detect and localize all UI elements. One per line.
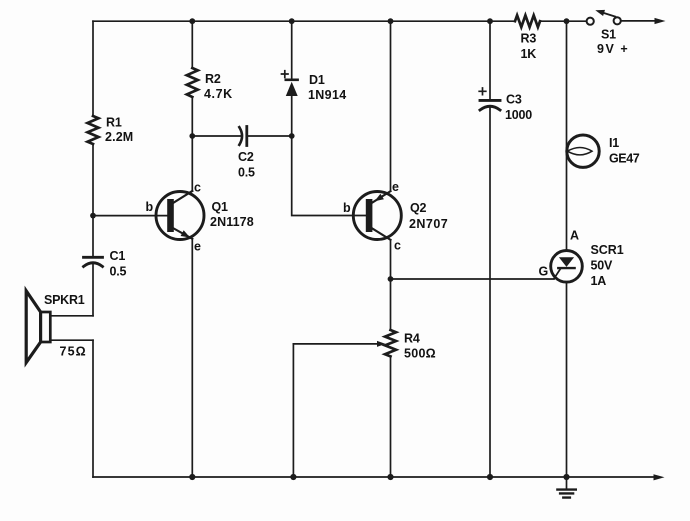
- switch S1: [587, 18, 594, 25]
- wire C3 top: [489, 21, 491, 100]
- potentiometer R4: [385, 330, 396, 356]
- svg-text:0.5: 0.5: [238, 166, 255, 180]
- svg-text:R2: R2: [205, 72, 221, 86]
- svg-text:I1: I1: [609, 136, 619, 150]
- wire Q2 collector rail: [390, 240, 392, 279]
- node C2 right junction: [289, 133, 295, 139]
- svg-text:c: c: [394, 239, 401, 253]
- wire R4 bottom: [390, 356, 392, 477]
- node C2 left junction: [189, 133, 195, 139]
- wire top rail right section: [540, 20, 587, 22]
- lamp I1: [567, 135, 599, 167]
- wire left rail below C1: [92, 265, 94, 316]
- node bottom junction SCR: [563, 474, 569, 480]
- wire speaker top terminal: [50, 315, 93, 317]
- capacitor C3: [480, 99, 500, 102]
- node top junction Q2 emitter rail: [388, 18, 394, 24]
- svg-text:A: A: [570, 229, 579, 243]
- wire Q1 emitter rail: [191, 239, 193, 477]
- node top junction D1: [289, 18, 295, 24]
- label D1 plus sign: [282, 71, 289, 78]
- svg-text:C2: C2: [238, 150, 254, 164]
- wire left rail upper: [92, 21, 94, 116]
- svg-text:75Ω: 75Ω: [60, 345, 86, 359]
- ground: [566, 477, 568, 488]
- thyristor SCR1: [551, 250, 583, 282]
- wire R4 wiper arm: [293, 343, 378, 345]
- wire left rail lower: [92, 340, 94, 477]
- svg-text:2.2M: 2.2M: [105, 130, 133, 144]
- svg-text:R4: R4: [404, 332, 420, 346]
- svg-text:D1: D1: [309, 73, 325, 87]
- node top junction R2: [189, 18, 195, 24]
- svg-text:2N1178: 2N1178: [210, 215, 254, 229]
- svg-text:Q2: Q2: [410, 201, 427, 215]
- wire D1 anode top: [291, 21, 293, 80]
- wire junction to R4: [390, 279, 392, 330]
- svg-text:C1: C1: [110, 249, 126, 263]
- wire SCR gate: [391, 278, 555, 280]
- wire left rail middle: [92, 144, 94, 257]
- svg-text:e: e: [194, 240, 201, 254]
- svg-text:50V: 50V: [591, 259, 614, 273]
- node bottom junction Q1 emitter: [189, 474, 195, 480]
- node bottom junction R4 wiper: [290, 474, 296, 480]
- svg-text:Q1: Q1: [212, 200, 229, 214]
- svg-text:GE47: GE47: [609, 152, 640, 166]
- svg-text:e: e: [392, 180, 399, 194]
- svg-text:b: b: [343, 201, 351, 215]
- svg-text:G: G: [539, 265, 549, 279]
- svg-text:0.5: 0.5: [110, 265, 127, 279]
- wire R2 bottom to junction: [191, 97, 193, 136]
- node top junction at lamp rail: [564, 18, 570, 24]
- svg-text:c: c: [194, 181, 201, 195]
- svg-text:2N707: 2N707: [409, 217, 448, 231]
- svg-text:4.7K: 4.7K: [204, 87, 232, 101]
- resistor R3: [515, 15, 540, 27]
- svg-text:1A: 1A: [591, 274, 607, 288]
- capacitor C2: [239, 127, 242, 145]
- speaker SPKR1: [41, 312, 51, 342]
- wire to Q2 base: [292, 136, 366, 216]
- wire Q1 base: [93, 215, 168, 217]
- label C3 plus sign: [479, 88, 486, 95]
- svg-text:R1: R1: [106, 116, 122, 130]
- capacitor C1: [84, 256, 103, 259]
- svg-text:1000: 1000: [505, 108, 532, 122]
- wire R2 rail top: [191, 21, 193, 68]
- diode D1: [286, 79, 298, 82]
- wire R4 wiper return: [292, 344, 294, 477]
- node bottom junction C3: [487, 474, 493, 480]
- svg-text:S1: S1: [601, 28, 616, 42]
- svg-text:500Ω: 500Ω: [404, 347, 436, 361]
- transistor Q1: [156, 192, 204, 240]
- wire to 9V+ with arrow: [621, 20, 655, 22]
- node top junction C3: [487, 18, 493, 24]
- resistor R1: [88, 116, 99, 144]
- svg-text:C3: C3: [506, 93, 522, 107]
- wire C2 right: [247, 135, 292, 137]
- svg-text:SPKR1: SPKR1: [44, 293, 85, 307]
- svg-text:9V +: 9V +: [597, 42, 628, 56]
- node bottom junction R4: [387, 474, 393, 480]
- node Q1 base junction: [90, 213, 96, 219]
- wire D1 cathode to junction: [291, 96, 293, 136]
- svg-text:1K: 1K: [521, 47, 537, 61]
- wire Q2 emitter rail: [390, 21, 392, 191]
- wire lamp rail: [566, 21, 568, 250]
- wire SCR cathode rail: [566, 282, 568, 477]
- resistor R2: [187, 68, 198, 97]
- wire top rail left section: [93, 20, 515, 22]
- svg-text:b: b: [146, 200, 154, 214]
- svg-text:SCR1: SCR1: [591, 243, 624, 257]
- node Q2 collector junction: [388, 276, 394, 282]
- wire C2 left: [192, 135, 242, 137]
- wire junction to Q1 collector: [191, 136, 193, 191]
- wire speaker bottom terminal: [50, 339, 93, 341]
- svg-text:R3: R3: [521, 32, 537, 46]
- svg-text:1N914: 1N914: [308, 88, 346, 102]
- wire bottom rail with arrow: [93, 476, 654, 478]
- wire C3 bottom rail: [489, 107, 491, 477]
- transistor Q2: [353, 192, 401, 240]
